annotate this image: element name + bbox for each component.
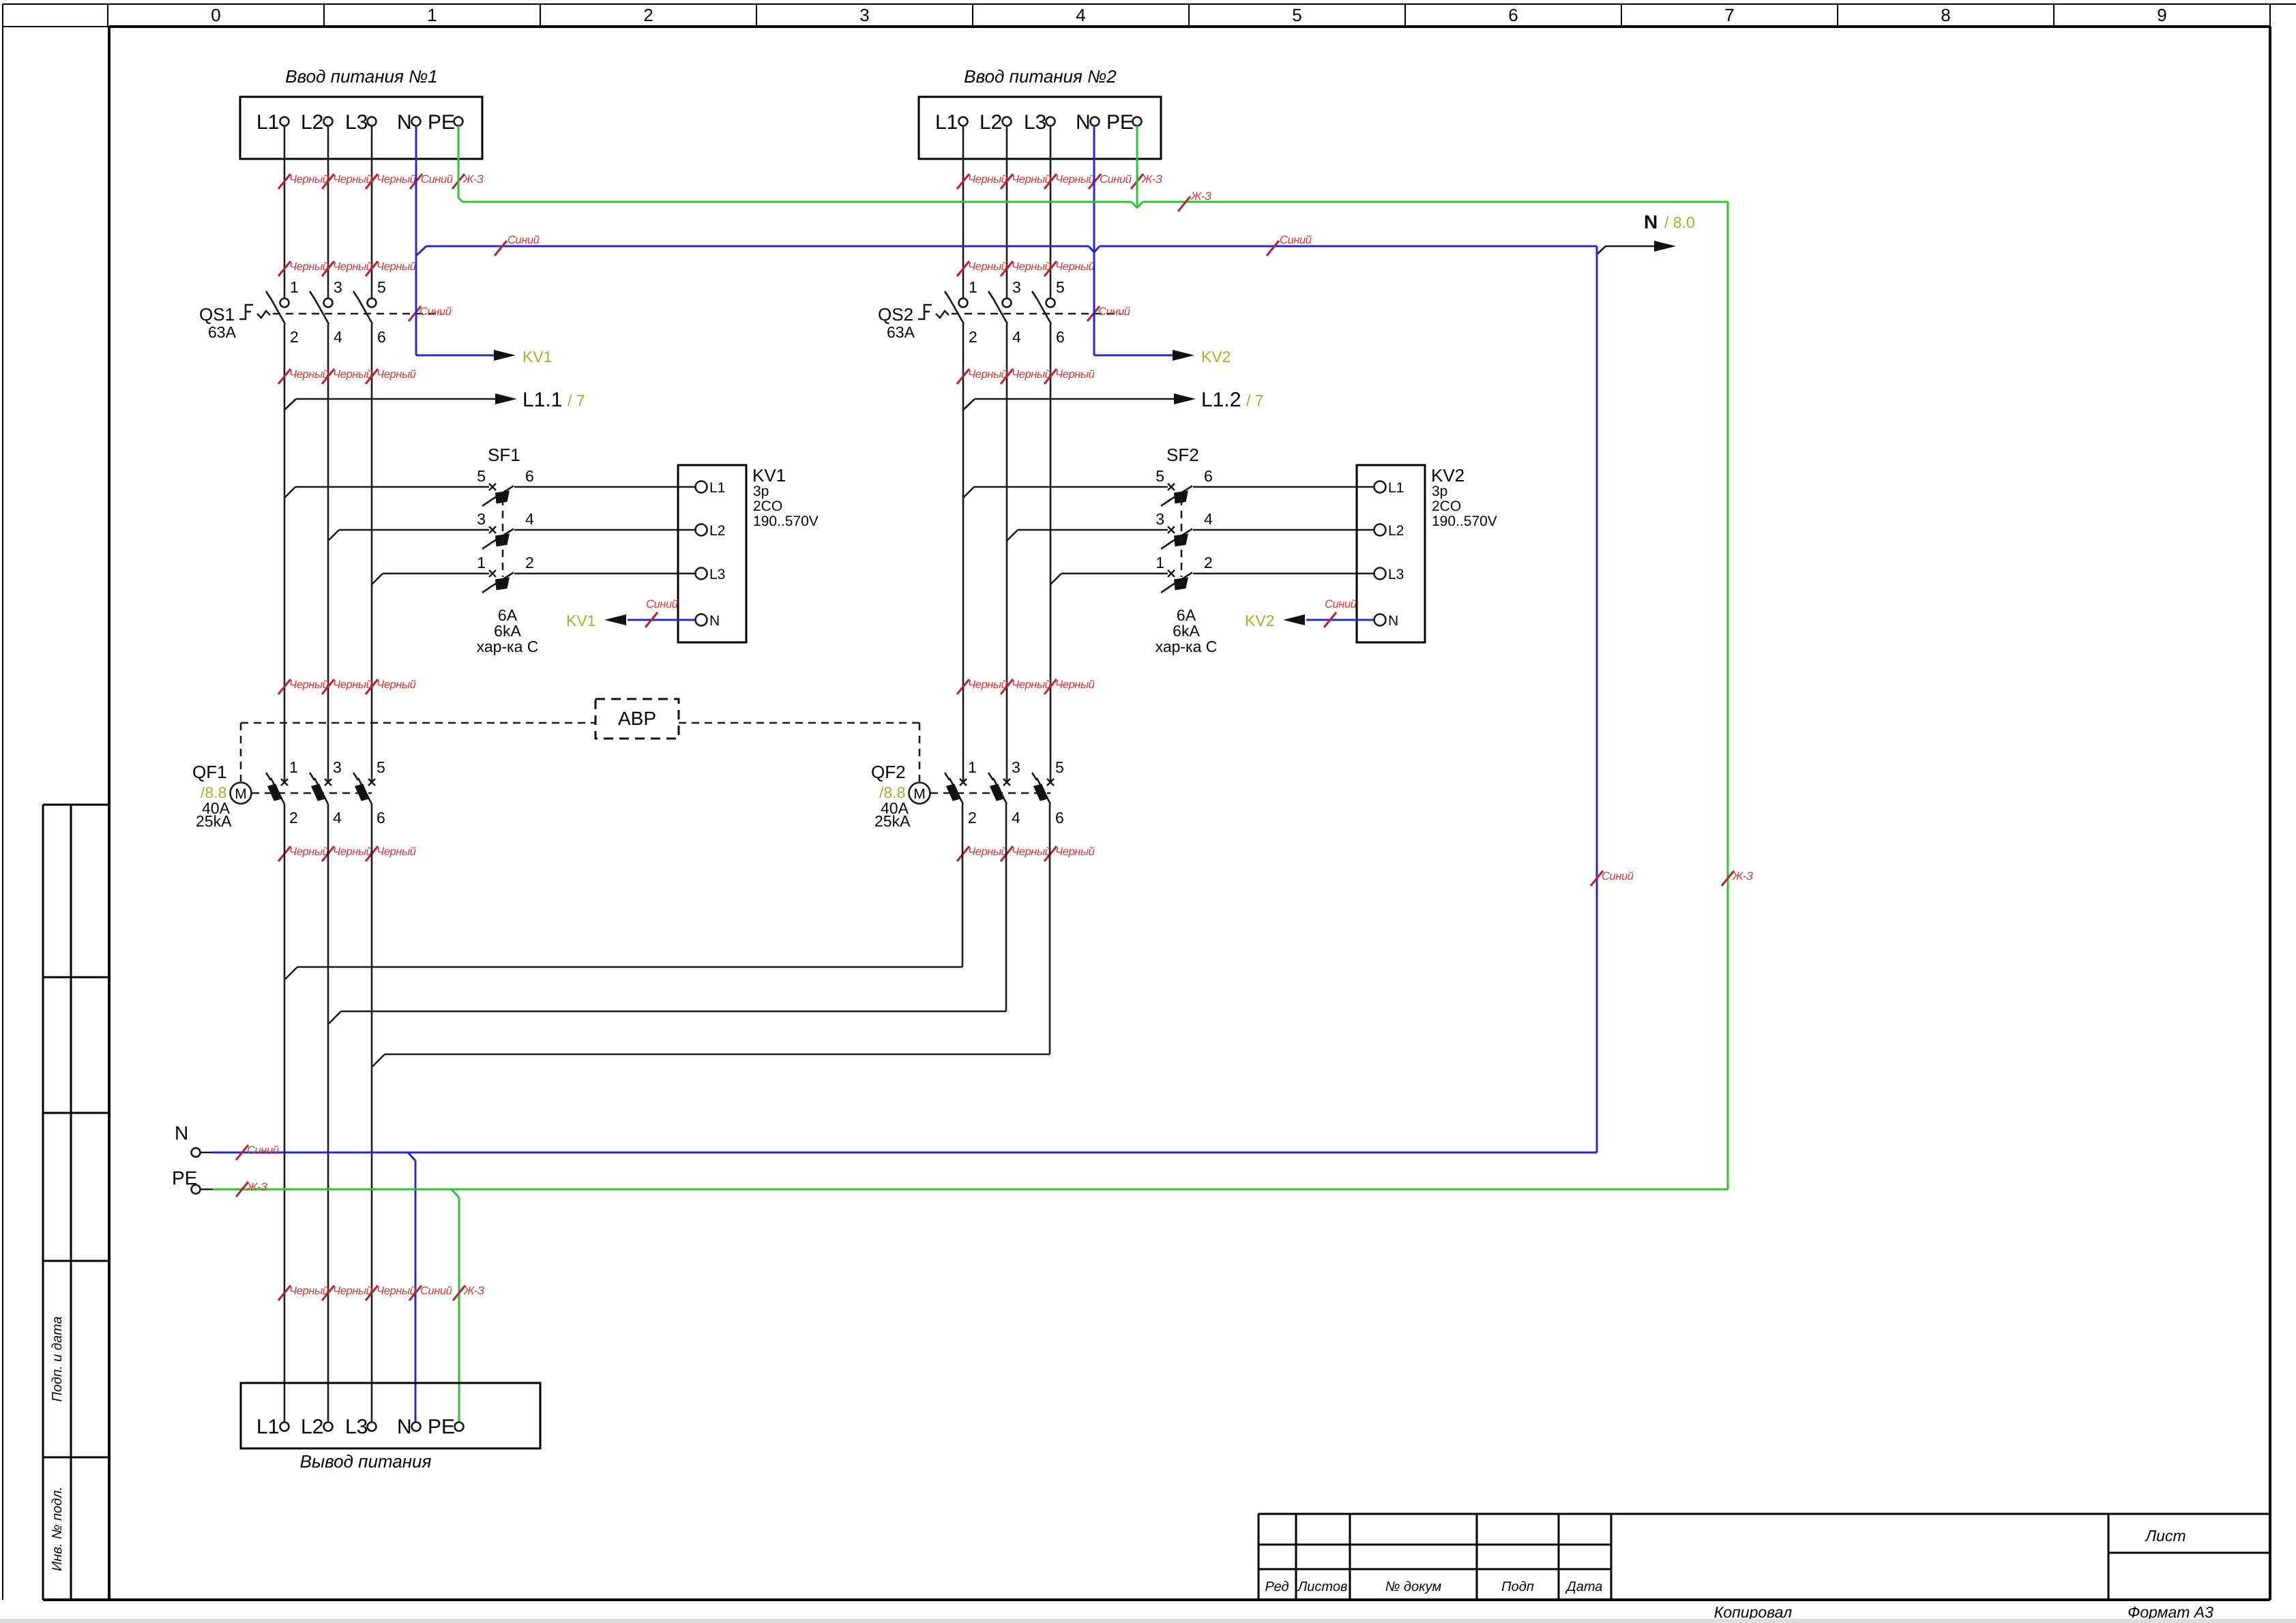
relay KV2 terminal L3 circle [1374, 568, 1386, 580]
bottom page edge strip [0, 1619, 2296, 1623]
svg-text:Ж-З: Ж-З [1141, 173, 1162, 185]
svg-text:Синий: Синий [1602, 870, 1634, 882]
breaker QF2 pole release element [990, 784, 1005, 801]
svg-text:L3: L3 [345, 111, 368, 134]
wire colour mark 'Черный' on input 2 L2 wire [1001, 173, 1051, 189]
input 1 terminal N circle [412, 117, 421, 126]
wire colour mark 'Черный' on QS2 input L3 [1044, 260, 1095, 276]
breaker SF2 contact cross pin 3 [1168, 526, 1175, 533]
QF2 mechanical link dashed line [930, 792, 1050, 794]
svg-text:Ж-З: Ж-З [462, 173, 484, 185]
wire colour mark 'Черный' on wire above QF2 L3 [1044, 679, 1095, 694]
breaker SF1 pole 1-2 blade [482, 573, 514, 593]
breaker QF1 pole 5-6 blade [353, 773, 372, 804]
disconnector QS2 pole 1-2 blade [945, 291, 964, 324]
svg-text:SF1: SF1 [488, 445, 520, 465]
svg-text:L2: L2 [1388, 523, 1404, 539]
svg-text:5: 5 [1156, 467, 1164, 485]
relay KV1 terminal L2 circle [696, 524, 707, 536]
svg-text:Дата: Дата [1565, 1579, 1603, 1594]
svg-text:25kA: 25kA [196, 812, 232, 830]
terminal N circle (bottom left) [192, 1148, 201, 1157]
svg-text:Подп: Подп [1501, 1579, 1534, 1594]
svg-text:2CO: 2CO [753, 498, 782, 514]
wire colour mark 'Ж-З' on PE bus [1178, 190, 1211, 211]
svg-text:/ 7: / 7 [1246, 391, 1264, 409]
svg-text:N: N [397, 111, 412, 134]
svg-text:KV2: KV2 [1245, 612, 1274, 629]
breaker SF2 contact cross pin 1 [1168, 570, 1175, 577]
wire QS2 pole output 6 down [1050, 324, 1052, 782]
wire colour mark 'Черный' on input 1 L3 wire [366, 173, 416, 189]
svg-text:M: M [235, 786, 247, 802]
svg-text:2: 2 [643, 5, 653, 25]
input 1 terminal PE circle [454, 117, 463, 126]
svg-text:KV1: KV1 [566, 612, 595, 629]
breaker QF1 pole 1-2 blade [266, 773, 284, 804]
svg-text:QS1: QS1 [199, 304, 235, 325]
breaker QF1 pole release element [311, 784, 326, 801]
wire input 1 phase L1 down to QS1 [284, 126, 286, 299]
svg-text:3p: 3p [753, 483, 769, 499]
svg-text:Формат А3: Формат А3 [2128, 1603, 2213, 1621]
neutral drop to output box (blue) [408, 1152, 415, 1422]
svg-text:Черный: Черный [968, 173, 1007, 185]
input 2 terminal L2 circle [1003, 117, 1012, 126]
wire colour mark 'Синий' on KV1 neutral feed [645, 598, 678, 627]
wire colour mark 'Черный' on wire below QF2 L3 [1044, 846, 1095, 861]
svg-text:4: 4 [334, 328, 342, 346]
wire input 1 phase L2 down to QS1 [327, 126, 329, 299]
QF1 dashed link to ABP line [240, 723, 242, 781]
QF2 motor drive circle M [909, 783, 930, 804]
arrow head KV1 feed [494, 350, 516, 361]
svg-text:5: 5 [477, 467, 486, 485]
wire colour mark 'Синий' on neutral right riser [1591, 870, 1634, 886]
wire colour mark 'Ж-З' on input 1 PE wire [452, 173, 484, 189]
svg-text:Черный: Черный [968, 679, 1007, 691]
wire QF2 output pin2 vertical [962, 804, 964, 967]
arrow head N to sheet 8 [1654, 241, 1676, 252]
svg-text:Черный: Черный [968, 260, 1007, 273]
svg-text:3: 3 [1156, 510, 1164, 528]
top ruler cell dividers [108, 4, 2270, 27]
svg-text:Черный: Черный [333, 679, 372, 691]
svg-text:3p: 3p [1432, 483, 1447, 499]
svg-text:2: 2 [290, 328, 299, 346]
wire QF1 output L2 down to output box [327, 804, 329, 1422]
svg-text:Черный: Черный [377, 173, 416, 185]
QF1 motor drive circle M [231, 783, 252, 804]
breaker SF1 contact cross pin 3 [489, 526, 496, 533]
svg-text:№ докум: № докум [1385, 1579, 1442, 1594]
svg-text:Копировал: Копировал [1714, 1603, 1792, 1621]
svg-text:Лист: Лист [2144, 1527, 2185, 1545]
svg-text:Подп. и дата: Подп. и дата [50, 1316, 65, 1401]
PE bus right riser (green) [1727, 202, 1729, 1189]
output terminal PE circle [455, 1423, 464, 1431]
svg-text:Синий: Синий [1280, 234, 1312, 246]
svg-text:6: 6 [377, 328, 386, 346]
disconnector QS2 pole 1-2 contact circle [959, 299, 968, 308]
wire colour mark 'Черный' on wire above QF1 L2 [322, 679, 372, 694]
input 2 terminal L1 circle [959, 117, 968, 126]
svg-text:L1: L1 [256, 111, 279, 134]
svg-text:Черный: Черный [968, 846, 1007, 858]
breaker SF1 contact cross pin 5 [489, 483, 496, 490]
svg-text:Ж-З: Ж-З [1732, 870, 1753, 882]
svg-text:Синий: Синий [247, 1144, 279, 1157]
svg-text:хар-ка C: хар-ка C [477, 638, 539, 655]
output terminal L3 circle [368, 1423, 377, 1431]
wire colour mark 'Синий' on KV2 neutral feed [1324, 598, 1357, 627]
svg-text:3: 3 [477, 510, 486, 528]
wire colour mark 'Черный' on QS2 output L3 [1044, 368, 1095, 384]
svg-text:Синий: Синий [507, 234, 540, 246]
join wire QF2 L1 to bus L1 [285, 967, 962, 979]
join wire QF2 L2 to bus L2 [329, 1011, 1006, 1024]
wire SF2 pin 4 to relay KV2 [1193, 529, 1374, 531]
disconnector QS1 pole 3-4 contact circle [324, 299, 333, 308]
breaker QF1 contact cross pin 1 [281, 779, 288, 786]
branch wire from phase L1 to breaker SF2 pin 5 [963, 487, 1168, 498]
sheet outer left edge line [2, 4, 3, 1600]
wire colour mark 'Черный' on wire below QF2 L2 [1001, 846, 1051, 861]
input 1 terminal L1 circle [280, 117, 289, 126]
wire colour mark 'Черный' on wire below QF1 L2 [322, 846, 372, 861]
breaker SF2 pole 3-4 release element [1174, 534, 1188, 547]
svg-text:3: 3 [859, 5, 869, 25]
branch wire from phase L1 to breaker SF1 pin 5 [284, 487, 489, 498]
svg-text:Черный: Черный [333, 173, 372, 185]
wire colour mark 'Синий' on input 1 N wire at QS1 level [409, 306, 452, 321]
PE bottom bus (green) [213, 1189, 1728, 1191]
branch wire from phase L2 to breaker SF1 pin 3 [328, 530, 489, 541]
svg-text:Черный: Черный [289, 1285, 329, 1297]
disconnector QS1 manual drive symbol F~ [239, 305, 270, 319]
svg-text:Черный: Черный [1055, 260, 1095, 273]
wire QF2 output pin6 vertical [1049, 804, 1051, 1054]
svg-text:Синий: Синий [646, 598, 678, 610]
top ruler band bottom line [3, 26, 2270, 27]
arrow head of L1.2 reference [1174, 393, 1196, 404]
PE drop to output box (green) [452, 1189, 459, 1422]
svg-text:L1.1: L1.1 [523, 389, 562, 411]
disconnector QS2 manual drive symbol F~ [918, 305, 949, 319]
arrow head to KV1 coil reference [604, 614, 626, 625]
arrow head to KV2 coil reference [1283, 614, 1305, 625]
wire SF2 pin 6 to relay KV2 [1193, 486, 1374, 488]
wire colour mark 'Черный' on wire below QF2 L1 [957, 846, 1007, 861]
svg-text:KV2: KV2 [1431, 465, 1465, 486]
svg-text:1: 1 [289, 758, 298, 776]
disconnector QS2 mechanical link dashed line [952, 313, 1121, 315]
svg-text:PE: PE [1106, 111, 1134, 134]
svg-text:190..570V: 190..570V [1432, 513, 1497, 529]
wire QS2 pole output 2 down [962, 324, 965, 782]
wire input 1 phase L3 down to QS1 [371, 126, 373, 299]
svg-text:L1: L1 [935, 111, 958, 134]
svg-text:Черный: Черный [289, 679, 329, 691]
svg-text:Ж-З: Ж-З [1190, 190, 1211, 203]
wire QS2 pole output 4 down [1006, 324, 1008, 782]
svg-text:/ 7: / 7 [568, 391, 585, 409]
svg-text:1: 1 [969, 278, 977, 296]
svg-text:9: 9 [2157, 5, 2166, 25]
relay KV1 terminal L1 circle [696, 481, 707, 493]
svg-text:Черный: Черный [333, 368, 372, 381]
output terminal L2 circle [324, 1423, 333, 1431]
wire SF2 pin 2 to relay KV2 [1193, 573, 1374, 575]
input 2 terminal L3 circle [1046, 117, 1055, 126]
svg-text:Черный: Черный [289, 260, 329, 273]
svg-text:6: 6 [1508, 5, 1518, 25]
disconnector QS2 pole 5-6 blade [1032, 291, 1051, 324]
input 1 terminal L2 circle [324, 117, 333, 126]
branch wire from phase L2 to breaker SF2 pin 3 [1007, 530, 1168, 541]
top ruler numbers 0-9 [211, 5, 2166, 25]
disconnector QS2 pole 3-4 blade [988, 291, 1007, 324]
breaker SF2 mechanical link dashed line [1181, 498, 1183, 577]
relay KV1 terminal N circle [696, 614, 707, 626]
wire colour mark 'Черный' on QS2 input L1 [957, 260, 1007, 276]
arrow head of L1.1 reference [495, 393, 517, 404]
svg-text:Черный: Черный [377, 679, 416, 691]
svg-text:L1: L1 [256, 1416, 279, 1438]
breaker SF2 contact cross pin 5 [1168, 483, 1175, 490]
svg-text:1: 1 [290, 278, 299, 296]
breaker QF2 contact cross pin 1 [960, 779, 967, 786]
svg-text:PE: PE [428, 111, 455, 134]
output terminal N circle [412, 1423, 421, 1431]
PE bus horizontal (green) [462, 202, 1728, 208]
breaker SF2 pole 5-6 release element [1174, 491, 1188, 504]
svg-text:2: 2 [969, 328, 977, 346]
wire colour mark 'Черный' on wire above QF2 L1 [957, 679, 1007, 694]
svg-text:N: N [1644, 211, 1658, 233]
svg-text:Синий: Синий [1325, 598, 1357, 610]
wire colour mark 'Черный' on input 1 L2 wire [322, 173, 372, 189]
svg-text:L1: L1 [1388, 480, 1404, 496]
svg-text:Черный: Черный [1055, 368, 1095, 381]
svg-text:25kA: 25kA [874, 812, 911, 830]
wire colour mark 'Черный' on QS1 input L1 [278, 260, 329, 276]
svg-text:Ввод питания №1: Ввод питания №1 [285, 66, 438, 87]
wire colour mark 'Черный' on QS2 output L2 [1001, 368, 1051, 384]
svg-text:4: 4 [1012, 809, 1020, 827]
breaker SF1 pole 3-4 blade [482, 529, 514, 550]
svg-text:Черный: Черный [1012, 846, 1051, 858]
svg-text:Черный: Черный [1012, 368, 1051, 381]
svg-text:Синий: Синий [1098, 306, 1130, 318]
wire colour mark 'Синий' on input 2 N wire at QS2 level [1087, 306, 1130, 321]
svg-text:N: N [397, 1416, 412, 1438]
wire colour mark 'Черный' on wire above QF1 L1 [278, 679, 329, 694]
neutral bus riser to sheet 8 branch [1597, 246, 1654, 254]
svg-text:Черный: Черный [1055, 173, 1095, 185]
KV2 coil feed arrow from N (blue) [1094, 355, 1173, 357]
svg-text:0: 0 [211, 5, 220, 25]
svg-text:Ж-З: Ж-З [463, 1285, 484, 1297]
wire colour mark 'Черный' on QS1 input L2 [322, 260, 372, 276]
wire colour mark 'Черный' on wire below QF1 L3 [366, 846, 416, 861]
svg-text:L2: L2 [301, 1416, 323, 1438]
svg-text:Черный: Черный [1055, 846, 1095, 858]
svg-text:KV2: KV2 [1201, 348, 1231, 366]
svg-text:63A: 63A [887, 323, 915, 341]
wire input 2 phase L1 down to QS2 [962, 126, 965, 299]
svg-text:KV1: KV1 [523, 348, 552, 366]
breaker SF1 mechanical link dashed line [502, 498, 504, 577]
svg-text:5: 5 [377, 758, 385, 776]
input 2 terminal N circle [1091, 117, 1100, 126]
relay KV2 terminal L1 circle [1374, 481, 1386, 493]
svg-text:6: 6 [1055, 809, 1064, 827]
svg-text:1: 1 [968, 758, 977, 776]
wire colour mark 'Черный' on output L3 [366, 1285, 416, 1300]
svg-text:Черный: Черный [289, 368, 329, 381]
svg-text:2: 2 [525, 554, 534, 571]
svg-text:Ввод питания №2: Ввод питания №2 [964, 66, 1117, 87]
svg-text:4: 4 [1204, 510, 1213, 528]
branch wire from phase L3 to breaker SF2 pin 1 [1050, 574, 1168, 584]
breaker SF1 pole 5-6 blade [482, 486, 514, 507]
voltage relay KV1 box [678, 465, 746, 642]
svg-text:Синий: Синий [420, 1285, 452, 1297]
branch wire from phase L3 to breaker SF1 pin 1 [372, 574, 489, 584]
svg-text:M: M [913, 786, 926, 802]
breaker QF2 pole 3-4 blade [988, 773, 1007, 804]
svg-text:7: 7 [1724, 5, 1734, 25]
wire colour mark 'Черный' on input 1 L1 wire [278, 173, 329, 189]
svg-text:L3: L3 [709, 567, 725, 582]
wire input 1 PE vertical (green) [458, 126, 462, 203]
svg-text:Вывод питания: Вывод питания [300, 1451, 432, 1472]
svg-text:L3: L3 [1024, 111, 1046, 134]
svg-text:2: 2 [1204, 554, 1213, 571]
svg-text:Черный: Черный [377, 846, 416, 858]
wire colour mark 'Черный' on wire above QF1 L3 [366, 679, 416, 694]
wire SF1 pin 4 to relay KV1 [514, 529, 695, 531]
svg-text:АВР: АВР [618, 708, 656, 729]
svg-text:Черный: Черный [968, 368, 1007, 381]
wire colour mark 'Черный' on QS1 input L3 [366, 260, 416, 276]
disconnector QS1 pole 5-6 blade [353, 291, 372, 324]
svg-text:Синий: Синий [1100, 173, 1132, 185]
svg-text:Синий: Синий [420, 306, 452, 318]
wire colour mark 'Синий' on neutral bus left span [495, 234, 540, 256]
svg-text:2CO: 2CO [1432, 498, 1461, 514]
neutral bottom bus (blue) [213, 1152, 1597, 1154]
wire input 2 PE vertical (green) [1136, 126, 1138, 209]
wire colour mark 'Синий' on output N [409, 1285, 452, 1300]
wire colour mark 'Ж-З' on input 2 PE wire [1131, 173, 1162, 189]
input 2 terminal PE circle [1133, 117, 1142, 126]
wire colour mark 'Ж-З' on bottom PE wire [236, 1181, 267, 1197]
svg-text:5: 5 [1055, 758, 1064, 776]
breaker SF2 pole 5-6 blade [1161, 486, 1192, 507]
svg-text:L1.2: L1.2 [1201, 389, 1241, 411]
svg-text:N: N [1388, 613, 1398, 629]
wire colour mark 'Синий' on bottom N wire [236, 1144, 279, 1160]
svg-text:6: 6 [1056, 328, 1065, 346]
wire colour mark 'Черный' on QS1 output L1 [278, 368, 329, 384]
disconnector QS1 pole 5-6 contact circle [368, 299, 377, 308]
wire colour mark 'Черный' on QS2 input L2 [1001, 260, 1051, 276]
svg-text:Черный: Черный [289, 846, 329, 858]
breaker SF1 pole 5-6 release element [495, 491, 510, 504]
svg-text:6: 6 [525, 467, 534, 485]
breaker QF1 contact cross pin 3 [325, 779, 332, 786]
neutral bus N horizontal (blue) [416, 246, 1597, 256]
svg-text:Ж-З: Ж-З [246, 1181, 267, 1193]
relay KV2 terminal L2 circle [1374, 524, 1386, 536]
relay KV2 neutral feed wire (blue) [1306, 619, 1374, 621]
svg-text:3: 3 [1012, 758, 1020, 776]
svg-text:1: 1 [427, 5, 437, 25]
wire colour mark 'Ж-З' on output PE [453, 1285, 484, 1300]
svg-text:Черный: Черный [333, 846, 372, 858]
breaker SF2 pole 1-2 release element [1174, 578, 1188, 591]
wire colour mark 'Черный' on input 2 L1 wire [957, 173, 1007, 189]
svg-text:5: 5 [1056, 278, 1065, 296]
wire colour mark 'Черный' on wire above QF2 L2 [1001, 679, 1051, 694]
wire colour mark 'Черный' on input 2 L3 wire [1044, 173, 1095, 189]
svg-text:Черный: Черный [289, 173, 329, 185]
KV1 coil feed arrow from N (blue) [416, 355, 494, 357]
breaker QF2 pole release element [1033, 784, 1048, 801]
svg-text:QS2: QS2 [878, 304, 913, 325]
wire colour mark 'Ж-З' on PE right riser [1722, 870, 1753, 886]
wire QF1 output L3 down to output box [371, 804, 373, 1422]
output terminal L1 circle [280, 1423, 289, 1431]
breaker SF1 pole 3-4 release element [495, 534, 510, 547]
svg-text:L3: L3 [345, 1416, 368, 1438]
terminal PE stub wire [201, 1189, 213, 1191]
wire colour mark 'Черный' on output L2 [322, 1285, 372, 1300]
wire input 2 phase L3 down to QS2 [1050, 126, 1052, 299]
branch wire to line reference L1.2 [963, 399, 1174, 410]
svg-text:1: 1 [477, 554, 486, 571]
svg-text:Черный: Черный [1055, 679, 1095, 691]
svg-text:Ред: Ред [1265, 1579, 1289, 1594]
relay KV1 terminal L3 circle [696, 568, 707, 580]
breaker SF2 pole 3-4 blade [1161, 529, 1192, 550]
svg-text:QF2: QF2 [871, 762, 906, 782]
svg-text:Синий: Синий [421, 173, 453, 185]
wire SF1 pin 2 to relay KV1 [514, 573, 695, 575]
svg-text:хар-ка C: хар-ка C [1156, 638, 1218, 655]
svg-text:1: 1 [1156, 554, 1164, 571]
QF1 mechanical link dashed line [252, 792, 372, 794]
wire colour mark 'Синий' on neutral bus right span [1267, 234, 1312, 256]
wire colour mark 'Синий' on input 2 N wire [1089, 173, 1132, 189]
disconnector QS1 pole 3-4 blade [310, 291, 329, 324]
breaker QF1 pole 3-4 blade [310, 773, 328, 804]
breaker QF2 pole release element [946, 784, 961, 801]
svg-text:4: 4 [1012, 328, 1021, 346]
svg-text:L2: L2 [301, 111, 323, 134]
svg-text:5: 5 [377, 278, 386, 296]
left attribute column boxes [43, 805, 109, 1600]
svg-text:4: 4 [333, 809, 342, 827]
svg-text:L3: L3 [1388, 567, 1404, 582]
svg-text:Черный: Черный [333, 1285, 372, 1297]
wire QS1 pole output 4 down [327, 324, 329, 782]
svg-text:L2: L2 [980, 111, 1002, 134]
svg-text:3: 3 [333, 758, 342, 776]
svg-text:63A: 63A [208, 323, 237, 341]
